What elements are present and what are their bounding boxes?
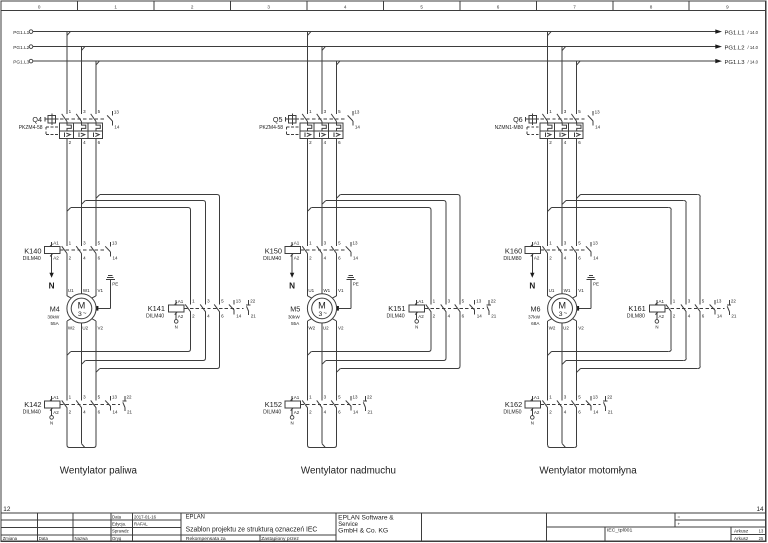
wire K140 pin 2 to motor U1	[67, 254, 71, 299]
svg-text:13: 13	[112, 240, 118, 245]
title block sheet fields	[734, 528, 764, 540]
svg-text:U1: U1	[308, 288, 314, 293]
svg-text:14: 14	[593, 255, 599, 260]
wire K162 pin 4 to star point	[562, 408, 565, 448]
wire Q5 pin 6 down to K150 pin 5	[336, 138, 338, 246]
wire K152 pin 2 to star point	[308, 408, 311, 448]
contactor K150 linkage (dashed)	[300, 249, 346, 251]
svg-text:A1: A1	[178, 299, 184, 304]
title block company name	[338, 514, 394, 534]
junction L1 rail tap to K151 (node U)	[308, 208, 312, 212]
svg-text:Wentylator paliwa: Wentylator paliwa	[60, 465, 138, 476]
node PG1.L1 left source label	[13, 30, 33, 35]
contactor K152 pole 2 contact, pins 3/4	[317, 395, 327, 415]
wire K161 pin 6 return to L3 rail	[581, 312, 701, 369]
wire K150 pin 4 to motor W1	[321, 254, 323, 294]
svg-text:14: 14	[353, 255, 359, 260]
svg-text:13: 13	[716, 299, 722, 304]
contactor K151 linkage (dashed)	[425, 307, 485, 309]
svg-text:M4: M4	[50, 305, 60, 314]
svg-text:V2: V2	[338, 326, 344, 331]
svg-text:PG1.L2: PG1.L2	[13, 45, 29, 50]
wire motor M5 PE to earth	[339, 279, 351, 308]
wire tap to K161 pole 1	[552, 208, 672, 305]
contactor K142 pole 2 contact, pins 3/4	[76, 395, 86, 415]
contactor K141 pole 2 contact, pins 3/4	[200, 299, 210, 319]
svg-text:DILM40: DILM40	[263, 256, 281, 262]
wire K151 pin 2 return to L1 rail	[311, 312, 431, 352]
wire tap to K161 pole 3	[581, 195, 701, 305]
svg-text:V2: V2	[98, 326, 104, 331]
svg-text:K141: K141	[148, 304, 165, 313]
svg-text:DILM40: DILM40	[263, 410, 281, 416]
svg-text:13: 13	[476, 299, 482, 304]
junction L3 rail tap to K161 (node W)	[577, 195, 581, 199]
breaker Q4 pole 1 contact, pins 1/2	[62, 109, 72, 145]
breaker Q5 pole 3 contact, pins 5/6	[331, 109, 341, 145]
svg-text:K162: K162	[505, 400, 522, 409]
contactor K140 pole 2 contact, pins 3/4	[76, 241, 86, 261]
contactor K161 auxiliary NO contact pins 13/14	[710, 299, 723, 319]
svg-text:14: 14	[113, 410, 119, 415]
wire motor U2 down to K152 pin 3	[321, 323, 323, 400]
svg-text:13: 13	[353, 395, 359, 400]
svg-text:14: 14	[355, 124, 361, 129]
wire tap to K151 pole 3	[340, 195, 460, 305]
svg-text:K160: K160	[505, 247, 522, 256]
svg-text:22: 22	[607, 395, 613, 400]
wire L3 drop to Q5 pin 5	[336, 62, 338, 114]
svg-text:N: N	[49, 281, 55, 290]
wire L2 drop to Q6 pin 3	[561, 47, 563, 114]
title block structure designators	[678, 514, 681, 526]
svg-text:N: N	[655, 325, 658, 330]
junction K141 return at L3 rail	[96, 369, 100, 373]
svg-text:Szablon projektu ze strukturą: Szablon projektu ze strukturą oznaczeń I…	[186, 527, 318, 534]
ground PE symbol at M4	[106, 276, 119, 287]
contactor K141 auxiliary NO contact pins 13/14	[229, 299, 242, 319]
wire motor U2 down to K142 pin 3	[81, 323, 83, 400]
contactor K151 pole 2 contact, pins 3/4	[441, 299, 451, 319]
svg-text:A1: A1	[534, 395, 540, 400]
wire Q6 blades into overload box	[548, 122, 577, 124]
svg-text:9: 9	[726, 4, 729, 9]
svg-text:Edycja.: Edycja.	[112, 522, 126, 527]
svg-text:U1: U1	[549, 288, 555, 293]
wire K142 pin 4 to star point	[82, 408, 85, 448]
motor M4 terminal labels U1 W1 V1	[68, 288, 104, 293]
contactor K150 pole 2 contact, pins 3/4	[317, 241, 327, 261]
contactor K162 coil	[525, 395, 541, 415]
motor M5 rating labels	[288, 305, 301, 326]
svg-text:30kW: 30kW	[288, 315, 301, 320]
contactor K162 auxiliary NO contact pins 13/14	[586, 395, 599, 415]
motor M5 symbol	[307, 294, 336, 323]
wire L1 drop to Q5 pin 1	[307, 32, 309, 114]
breaker Q5 manual operator symbol	[285, 114, 299, 125]
breaker Q6 magnetic overcurrent elements I>	[545, 133, 580, 138]
svg-text:N: N	[291, 421, 294, 426]
motor M5 terminal labels U1 W1 V1	[308, 288, 344, 293]
svg-text:GmbH & Co. KG: GmbH & Co. KG	[338, 527, 388, 534]
svg-text:K151: K151	[388, 304, 405, 313]
wire motor M6 PE to earth	[579, 279, 591, 308]
svg-text:V1: V1	[578, 288, 584, 293]
contactor K160 coil	[525, 241, 541, 261]
svg-text:22: 22	[127, 395, 133, 400]
wire K140 pin 6 to motor V1	[92, 254, 96, 299]
junction PG1.L2 to Q4 pole 2	[82, 47, 85, 51]
junction L3 rail tap to K141 (node W)	[96, 195, 100, 199]
wire motor U2 down to K162 pin 3	[561, 323, 563, 400]
contactor K162 designation label	[503, 400, 522, 415]
junction K141 return at L1 rail	[67, 352, 71, 356]
wire K141 pin 2 return to L1 rail	[71, 312, 191, 352]
contactor K152 linkage (dashed)	[300, 403, 360, 405]
motor M6 rating labels	[528, 305, 541, 326]
breaker Q4 magnetic overcurrent elements I>	[65, 133, 100, 138]
contactor K161 pole 2 contact, pins 3/4	[681, 299, 691, 319]
motor M5 terminal labels W2 U2 V2	[308, 326, 344, 331]
title block grid	[1, 513, 766, 541]
svg-text:PG1.L1: PG1.L1	[13, 30, 29, 35]
svg-text:25: 25	[759, 536, 764, 541]
contactor K140 pole 1 contact, pins 1/2	[62, 241, 72, 261]
junction L3 rail tap to K151 (node W)	[337, 195, 341, 199]
svg-text:13: 13	[114, 110, 120, 115]
contactor K141 linkage (dashed)	[184, 307, 244, 309]
svg-text:IEC_tpl001: IEC_tpl001	[607, 527, 633, 532]
breaker Q6 overload release box	[540, 123, 583, 138]
wire phase bus PG1.L3	[33, 60, 716, 62]
svg-text:A2: A2	[534, 410, 540, 415]
svg-text:A2: A2	[53, 256, 59, 261]
svg-text:22: 22	[250, 299, 256, 304]
svg-text:A2: A2	[659, 314, 665, 319]
wire K140 pin 4 to motor W1	[81, 254, 83, 294]
contactor K142 pole 3 contact, pins 5/6	[91, 395, 101, 415]
contactor K151 designation label	[387, 304, 406, 319]
svg-text:2017-01-16: 2017-01-16	[134, 514, 157, 519]
contactor K151 auxiliary NC contact pins 22/21	[487, 299, 497, 319]
svg-text:Arkusz: Arkusz	[734, 528, 748, 533]
svg-text:14: 14	[593, 410, 599, 415]
contactor K162 auxiliary NC contact pins 22/21	[603, 395, 613, 415]
wire phase bus PG1.L2	[33, 46, 716, 48]
wire K162 pin 6 to star point	[574, 408, 577, 448]
svg-text:N: N	[289, 281, 295, 290]
wire Q4 pin 6 down to K140 pin 5	[95, 138, 97, 246]
wire L1 drop to Q6 pin 1	[547, 32, 549, 114]
svg-text:M6: M6	[531, 305, 541, 314]
wire K141 pin 6 return to L3 rail	[100, 312, 220, 369]
contactor K162 pole 1 contact, pins 1/2	[542, 395, 552, 415]
wire motor W2 down to K142 pin 1	[67, 319, 71, 401]
breaker Q4 mechanism linkage (dashed)	[60, 118, 106, 120]
wire tap to K141 pole 1	[71, 208, 191, 305]
node N under K151	[415, 317, 419, 330]
motor M4 terminal labels W2 U2 V2	[68, 326, 104, 331]
wire star point bus of M4	[70, 447, 94, 449]
wire K152 pin 4 to star point	[322, 408, 325, 448]
junction PG1.L3 to Q4 pole 3	[96, 61, 99, 65]
svg-text:0: 0	[38, 4, 41, 9]
svg-text:M: M	[78, 301, 86, 311]
contactor K160 pole 3 contact, pins 5/6	[571, 241, 581, 261]
wire Q4 pin 2 down to K140 pin 1	[66, 138, 68, 246]
contactor K161 linkage (dashed)	[665, 307, 725, 309]
column header dividers and numbers	[38, 1, 729, 11]
wire K150 pin 2 to motor U1	[308, 254, 312, 299]
breaker Q6 mechanism linkage (dashed)	[541, 118, 587, 120]
contactor K152 auxiliary NO contact pins 13/14	[346, 395, 359, 415]
contactor K161 designation label	[627, 304, 646, 319]
contactor K160 pole 1 contact, pins 1/2	[542, 241, 552, 261]
svg-text:DILM50: DILM50	[503, 410, 521, 416]
wire K141 pin 4 return to L2 rail	[85, 312, 205, 361]
svg-text:A2: A2	[178, 314, 184, 319]
wire K151 pin 6 return to L3 rail	[340, 312, 460, 369]
wire K152 pin 6 to star point	[334, 408, 337, 448]
svg-text:N: N	[175, 325, 178, 330]
junction L2 rail tap to K141 (node V)	[82, 201, 86, 205]
node N arrow under K140	[49, 273, 55, 291]
svg-text:Sprawdz: Sprawdz	[112, 529, 129, 534]
svg-text:14: 14	[595, 124, 601, 129]
contactor K160 pole 2 contact, pins 3/4	[557, 241, 567, 261]
contactor K150 coil	[285, 241, 301, 261]
wire Q4 blades into overload box	[67, 122, 96, 124]
motor M5 PE terminal	[337, 306, 339, 311]
svg-text:A1: A1	[294, 241, 300, 246]
svg-text:W2: W2	[308, 326, 315, 331]
svg-text:1: 1	[114, 4, 117, 9]
svg-text:W1: W1	[564, 288, 571, 293]
svg-text:13: 13	[353, 240, 359, 245]
wire Q5 pin 4 down to K150 pin 3	[321, 138, 323, 246]
svg-text:A1: A1	[534, 241, 540, 246]
svg-text:4: 4	[344, 4, 347, 9]
svg-text:W2: W2	[549, 326, 556, 331]
junction K151 return at L1 rail	[308, 352, 312, 356]
svg-text:13: 13	[236, 299, 242, 304]
svg-text:K140: K140	[24, 247, 41, 256]
junction K151 return at L2 rail	[322, 361, 326, 365]
wire K160 coil A2 to neutral	[531, 258, 533, 273]
breaker Q5 mechanism linkage (dashed)	[301, 118, 347, 120]
breaker Q6 auxiliary contact pins 13/14	[588, 110, 601, 130]
contactor K150 auxiliary contact pins 13/14	[346, 240, 359, 260]
wire tap to K141 pole 3	[100, 195, 220, 305]
contactor K141 coil	[169, 299, 185, 319]
svg-text:14: 14	[236, 314, 242, 319]
svg-text:RAFAL: RAFAL	[134, 522, 148, 527]
svg-text:N: N	[50, 421, 53, 426]
wire L3 drop to Q4 pin 5	[95, 62, 97, 114]
svg-text:PE: PE	[353, 282, 359, 287]
svg-text:PG1.L3: PG1.L3	[13, 60, 29, 65]
wire K151 pin 4 return to L2 rail	[326, 312, 446, 361]
node PG1.L2 right destination arrow	[715, 44, 758, 51]
svg-text:U2: U2	[82, 326, 88, 331]
node N under K142	[50, 413, 54, 426]
wire star point bus of M5	[310, 447, 334, 449]
svg-text:21: 21	[608, 410, 614, 415]
title block small labels	[186, 536, 299, 541]
contactor K140 pole 3 contact, pins 5/6	[91, 241, 101, 261]
svg-text:A2: A2	[53, 410, 59, 415]
contactor K142 auxiliary NC contact pins 22/21	[122, 395, 132, 415]
svg-text:A2: A2	[294, 410, 300, 415]
breaker Q4 overload release box	[59, 123, 102, 138]
svg-text:/ 14.0: / 14.0	[748, 30, 759, 35]
wire Q5 blades into overload box	[308, 122, 337, 124]
svg-text:13: 13	[354, 110, 360, 115]
svg-text:68A: 68A	[531, 321, 540, 326]
title block field labels	[3, 514, 129, 541]
svg-text:A2: A2	[534, 256, 540, 261]
wire K162 pin 2 to star point	[548, 408, 551, 448]
breaker Q4 manual operator symbol	[45, 114, 59, 125]
svg-text:K152: K152	[265, 400, 282, 409]
svg-text:K161: K161	[628, 304, 645, 313]
svg-text:=: =	[678, 514, 681, 519]
svg-text:Zmiana: Zmiana	[3, 536, 18, 541]
contactor K152 pole 1 contact, pins 1/2	[302, 395, 312, 415]
contactor K152 auxiliary NC contact pins 22/21	[363, 395, 373, 415]
wire Q4 pin 4 down to K140 pin 3	[81, 138, 83, 246]
svg-text:PE: PE	[593, 282, 599, 287]
node N under K141	[174, 317, 178, 330]
svg-text:Q6: Q6	[513, 115, 523, 124]
wire K161 pin 4 return to L2 rail	[566, 312, 686, 361]
contactor K161 pole 1 contact, pins 1/2	[666, 299, 676, 319]
svg-text:W1: W1	[323, 288, 330, 293]
junction K141 return at L2 rail	[82, 361, 86, 365]
svg-text:2: 2	[191, 4, 194, 9]
junction PG1.L2 to Q5 pole 2	[322, 47, 325, 51]
contactor K150 pole 1 contact, pins 1/2	[302, 241, 312, 261]
breaker Q5 trip linkage to releases (dashed)	[287, 127, 300, 135]
svg-text:Nazwa: Nazwa	[75, 536, 89, 541]
ground PE symbol at M5	[346, 276, 359, 287]
svg-text:Wentylator motomłyna: Wentylator motomłyna	[539, 465, 637, 476]
svg-text:K150: K150	[265, 247, 282, 256]
svg-text:13: 13	[595, 110, 601, 115]
wire K161 pin 2 return to L1 rail	[552, 312, 672, 352]
wire Q5 pin 2 down to K150 pin 1	[307, 138, 309, 246]
junction K161 return at L1 rail	[548, 352, 552, 356]
svg-text:V2: V2	[578, 326, 584, 331]
svg-text:A1: A1	[53, 241, 59, 246]
breaker Q5 overload release box	[300, 123, 343, 138]
svg-text:N: N	[415, 325, 418, 330]
svg-text:A2: A2	[418, 314, 424, 319]
svg-text:14: 14	[113, 255, 119, 260]
contactor K140 auxiliary contact pins 13/14	[105, 240, 118, 260]
svg-text:8: 8	[650, 4, 653, 9]
svg-text:13: 13	[593, 395, 599, 400]
svg-text:EPLAN: EPLAN	[186, 513, 206, 520]
node PG1.L1 right destination arrow	[715, 29, 758, 36]
motor M6 PE terminal	[577, 306, 579, 311]
svg-text:22: 22	[731, 299, 737, 304]
node PG1.L3 right destination arrow	[715, 59, 758, 66]
wire L2 drop to Q4 pin 3	[81, 47, 83, 114]
svg-text:37kW: 37kW	[528, 315, 541, 320]
contactor K150 pole 3 contact, pins 5/6	[331, 241, 341, 261]
svg-text:M5: M5	[290, 305, 300, 314]
wire motor V2 down to K152 pin 5	[332, 319, 336, 401]
breaker Q6 pole 3 contact, pins 5/6	[571, 109, 581, 145]
column header band	[1, 10, 766, 12]
wire K160 pin 6 to motor V1	[573, 254, 577, 299]
contactor K151 pole 1 contact, pins 1/2	[426, 299, 436, 319]
contactor K160 linkage (dashed)	[541, 249, 587, 251]
contactor K150 designation label	[263, 247, 282, 263]
node N arrow under K160	[529, 273, 535, 291]
wire motor W2 down to K152 pin 1	[308, 319, 312, 401]
wire tap to K151 pole 2	[326, 201, 446, 305]
junction K151 return at L3 rail	[337, 369, 341, 373]
breaker Q6 thermal overload elements	[548, 123, 581, 131]
svg-text:PKZM4-58: PKZM4-58	[259, 125, 283, 131]
contactor K140 designation label	[23, 247, 42, 263]
wire Q6 pin 4 down to K160 pin 3	[561, 138, 563, 246]
svg-text:21: 21	[731, 314, 737, 319]
svg-text:~: ~	[323, 310, 327, 317]
wire motor M4 PE to earth	[98, 279, 110, 308]
svg-text:Arkusz: Arkusz	[734, 536, 748, 541]
motor M4 rating labels	[47, 305, 60, 326]
svg-text:~: ~	[83, 310, 87, 317]
svg-text:12: 12	[3, 506, 11, 513]
breaker Q5 pole 1 contact, pins 1/2	[302, 109, 312, 145]
svg-text:3: 3	[267, 4, 270, 9]
svg-text:PKZM4-58: PKZM4-58	[19, 125, 43, 131]
junction K161 return at L3 rail	[577, 369, 581, 373]
junction K161 return at L2 rail	[562, 361, 566, 365]
junction PG1.L1 to Q5 pole 1	[308, 32, 311, 36]
svg-text:V1: V1	[338, 288, 344, 293]
contactor K162 pole 2 contact, pins 3/4	[557, 395, 567, 415]
svg-text:Wentylator nadmuchu: Wentylator nadmuchu	[301, 465, 396, 476]
svg-text:A2: A2	[294, 256, 300, 261]
contactor K142 designation label	[23, 400, 42, 415]
svg-text:30kW: 30kW	[47, 315, 60, 320]
wire star point bus of M6	[550, 447, 574, 449]
contactor K152 coil	[285, 395, 301, 415]
breaker Q4 thermal overload elements	[67, 123, 100, 131]
contactor K142 pole 1 contact, pins 1/2	[62, 395, 72, 415]
junction PG1.L3 to Q6 pole 3	[577, 61, 580, 65]
wire motor W2 down to K162 pin 1	[548, 319, 552, 401]
breaker Q4 pole 3 contact, pins 5/6	[91, 109, 101, 145]
svg-text:+: +	[678, 521, 681, 526]
svg-text:A1: A1	[53, 395, 59, 400]
contactor K141 pole 3 contact, pins 5/6	[214, 299, 224, 319]
svg-text:DILM80: DILM80	[627, 314, 645, 320]
breaker Q4 pole 2 contact, pins 3/4	[76, 109, 86, 145]
svg-text:7: 7	[573, 4, 576, 9]
circuit breaker Q6 designation label	[495, 115, 524, 131]
svg-text:DILM40: DILM40	[23, 256, 41, 262]
contactor K141 designation label	[146, 304, 165, 319]
contactor K140 linkage (dashed)	[60, 249, 106, 251]
wire K160 pin 4 to motor W1	[561, 254, 563, 294]
ground PE symbol at M6	[587, 276, 600, 287]
svg-text:5: 5	[420, 4, 423, 9]
